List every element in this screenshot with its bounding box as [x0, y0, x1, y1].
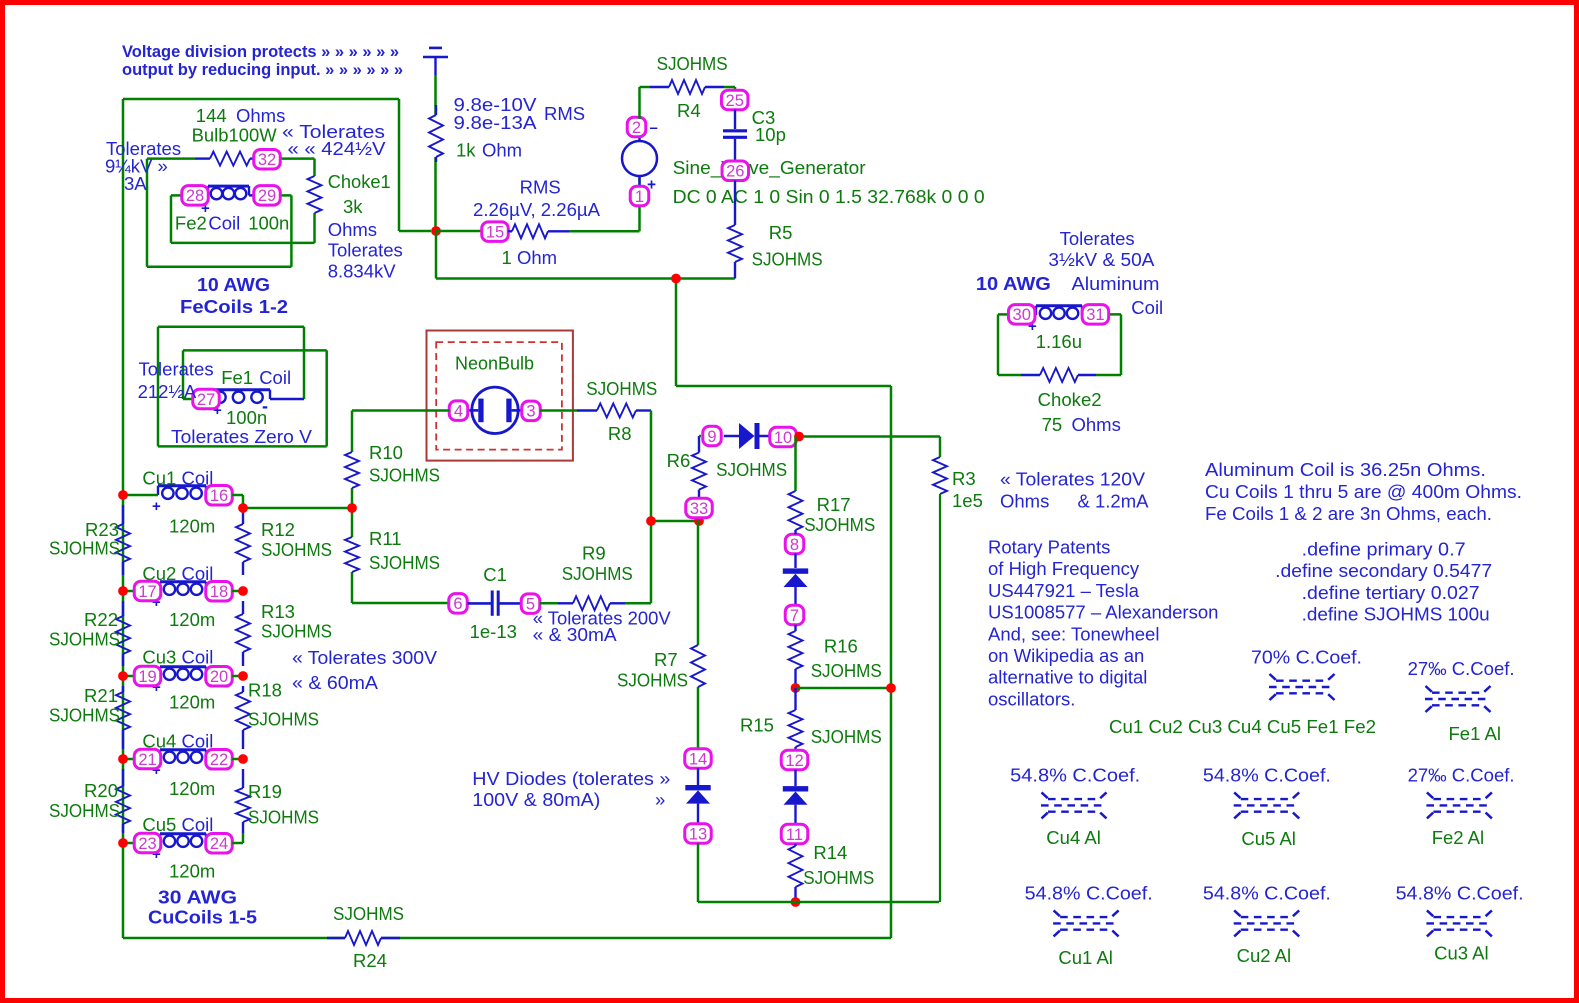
svg-text:Tolerates: Tolerates	[139, 359, 214, 380]
wire diode column bottom	[698, 843, 939, 902]
svg-text:Ohms: Ohms	[328, 219, 377, 240]
svg-text:R21: R21	[84, 685, 118, 706]
svg-text:21: 21	[138, 751, 156, 769]
svg-text:« Tolerates 120V: « Tolerates 120V	[1000, 469, 1146, 490]
resistor R8	[577, 378, 657, 444]
svg-text:Ohm: Ohm	[482, 140, 522, 161]
svg-text:output by reducing input. » »: output by reducing input. » » » » » »	[122, 60, 403, 79]
junction	[791, 897, 801, 907]
svg-text:70% C.Coef.: 70% C.Coef.	[1251, 647, 1362, 668]
svg-text:24: 24	[210, 835, 228, 853]
svg-text:14: 14	[689, 750, 707, 768]
svg-text:R11: R11	[369, 528, 402, 549]
node 15	[482, 222, 509, 242]
svg-text:3A: 3A	[124, 173, 147, 194]
wire ground to resistor	[434, 75, 437, 231]
svg-text:R8: R8	[608, 423, 632, 444]
comment text: tolerates 424 V	[282, 121, 386, 159]
svg-text:Cu5 Al: Cu5 Al	[1241, 828, 1296, 849]
wire junction down to source-loop bottom	[435, 231, 438, 279]
svg-text:30 AWG: 30 AWG	[158, 887, 237, 908]
svg-text:SJOHMS: SJOHMS	[261, 539, 332, 560]
svg-text:R10: R10	[369, 442, 403, 463]
svg-text:–: –	[650, 120, 658, 137]
resistor R15	[740, 688, 882, 750]
svg-text:CuCoils 1-5: CuCoils 1-5	[148, 907, 257, 928]
wire aluminum coil loop	[998, 314, 1121, 375]
svg-text:19: 19	[138, 668, 156, 686]
diode D1	[724, 423, 770, 449]
svg-text:1: 1	[635, 188, 644, 206]
svg-text:25: 25	[726, 92, 744, 110]
node 30	[1008, 305, 1034, 325]
wire source loop bottom	[436, 277, 735, 280]
svg-text:13: 13	[689, 825, 707, 843]
svg-text:SJOHMS: SJOHMS	[49, 705, 120, 726]
svg-text:9.8e-13A: 9.8e-13A	[454, 112, 538, 133]
voltage source Sine_Wave_Generator	[622, 120, 985, 208]
svg-text:R22: R22	[84, 609, 118, 630]
resistor R4	[650, 53, 728, 121]
node 33	[686, 498, 713, 518]
svg-text:R14: R14	[813, 842, 847, 863]
comment text: aluminum coil ratings	[976, 228, 1163, 318]
svg-text:30: 30	[1013, 306, 1031, 324]
node 24	[206, 834, 233, 854]
resistor R18	[236, 680, 319, 750]
wire outer loop top	[123, 99, 431, 231]
node 22	[206, 750, 233, 770]
comment text: define directives	[1275, 539, 1492, 625]
svg-text:SJOHMS: SJOHMS	[657, 53, 728, 74]
svg-text:1e5: 1e5	[952, 490, 983, 511]
comment text: tolerates 200V 30mA	[533, 608, 672, 646]
junction	[886, 683, 896, 693]
comment text: 10 AWG FeCoils	[180, 274, 288, 317]
resistor R21	[49, 685, 130, 749]
svg-text:R19: R19	[248, 781, 282, 802]
wire R17 column top	[794, 437, 797, 492]
svg-text:6: 6	[453, 595, 462, 613]
wire to node 15	[436, 230, 482, 233]
junction	[238, 503, 248, 764]
svg-text:US1008577 – Alexanderson: US1008577 – Alexanderson	[988, 602, 1218, 623]
coupling K1 Cu-Fe 70%	[1109, 647, 1376, 738]
svg-text:US447921 – Tesla: US447921 – Tesla	[988, 580, 1140, 601]
svg-text:100n: 100n	[226, 407, 267, 428]
resistor R20	[49, 769, 130, 833]
node 27	[193, 389, 220, 409]
resistor Choke2	[1021, 368, 1121, 435]
svg-text:NeonBulb: NeonBulb	[455, 353, 534, 374]
svg-text:120m: 120m	[169, 692, 215, 713]
svg-text:Cu Coils 1 thru 5 are @ 400m O: Cu Coils 1 thru 5 are @ 400m Ohms.	[1205, 481, 1522, 502]
resistor R16	[789, 625, 882, 688]
node 28	[182, 186, 209, 206]
svg-text:Tolerates: Tolerates	[1060, 228, 1135, 249]
comment text: 30 AWG CuCoils	[148, 887, 257, 928]
svg-text:Aluminum Coil is 36.25n Ohms.: Aluminum Coil is 36.25n Ohms.	[1205, 459, 1486, 480]
node 26	[722, 161, 749, 181]
inductor Cu5 Coil	[123, 814, 215, 881]
svg-text:& 1.2mA: & 1.2mA	[1078, 491, 1150, 512]
svg-text:SJOHMS: SJOHMS	[49, 629, 120, 650]
comment text: HV diodes	[472, 768, 670, 810]
svg-text:10: 10	[774, 429, 792, 447]
svg-text:2.26µV, 2.26µA: 2.26µV, 2.26µA	[473, 199, 601, 220]
comment text: tolerates 212 A	[138, 359, 214, 403]
wire cu rows right connections	[232, 591, 243, 843]
inductor Cu4 Coil	[123, 731, 215, 800]
inductor Fe2 Coil	[175, 186, 289, 233]
capacitor C3	[723, 107, 786, 161]
svg-text:54.8% C.Coef.: 54.8% C.Coef.	[1010, 765, 1140, 786]
resistor Bulb100W 144 Ohms	[192, 105, 286, 166]
wire R8 down	[651, 411, 699, 522]
coupling K3 Cu4-Al	[1010, 765, 1140, 849]
svg-text:R9: R9	[582, 543, 606, 564]
svg-text:Ohms: Ohms	[1000, 491, 1049, 512]
node 9	[703, 426, 722, 446]
svg-text:2: 2	[632, 119, 641, 137]
resistor R24	[327, 903, 404, 971]
wire mid horizontal to right rail	[676, 385, 891, 388]
svg-text:212½A: 212½A	[138, 381, 197, 402]
svg-text:R3: R3	[952, 468, 976, 489]
node 16	[206, 486, 233, 506]
svg-text:9: 9	[707, 428, 716, 446]
junction	[347, 503, 357, 513]
resistor R7	[617, 645, 705, 691]
inductor Fe1 Coil	[183, 367, 304, 428]
svg-text:R6: R6	[667, 450, 691, 471]
svg-text:Fe2 Al: Fe2 Al	[1432, 827, 1484, 848]
svg-text:Coil: Coil	[182, 731, 214, 752]
svg-text:« « 424½V: « « 424½V	[288, 138, 387, 159]
node 29	[254, 186, 281, 206]
neon bulb NE1	[427, 331, 573, 461]
svg-text:Choke1: Choke1	[328, 171, 391, 192]
svg-text:SJOHMS: SJOHMS	[803, 867, 874, 888]
coupling K8 Cu3-Al	[1396, 883, 1524, 964]
svg-text:R5: R5	[769, 222, 793, 243]
inductor Cu3 Coil	[123, 647, 215, 713]
node 7	[785, 605, 804, 625]
wire C3 to R5	[734, 181, 736, 226]
comment text: tolerates 9kV 3A	[105, 138, 181, 194]
svg-text:75: 75	[1042, 414, 1063, 435]
svg-text:144: 144	[196, 105, 227, 126]
wire left rail	[122, 99, 125, 938]
svg-text:R17: R17	[817, 494, 851, 515]
svg-text:« & 30mA: « & 30mA	[533, 624, 618, 645]
node 11	[781, 824, 808, 844]
svg-text:DC 0 AC 1 0 Sin 0 1.5 32.768k: DC 0 AC 1 0 Sin 0 1.5 32.768k 0 0 0	[673, 186, 985, 207]
resistor 1k Ohm (RMS monitor)	[429, 94, 585, 162]
svg-text:10p: 10p	[755, 124, 786, 145]
wire source top	[640, 87, 651, 119]
svg-text:100V & 80mA): 100V & 80mA)	[472, 789, 600, 810]
svg-text:Fe Coils 1 & 2 are 3n Ohms, ea: Fe Coils 1 & 2 are 3n Ohms, each.	[1205, 503, 1492, 524]
svg-text:SJOHMS: SJOHMS	[562, 563, 633, 584]
svg-text:16: 16	[210, 487, 228, 505]
resistor R6	[667, 436, 788, 499]
svg-text:1.16u: 1.16u	[1036, 331, 1082, 352]
svg-text:22: 22	[210, 751, 228, 769]
resistor R13	[236, 601, 332, 666]
svg-text:R16: R16	[824, 636, 858, 657]
svg-text:SJOHMS: SJOHMS	[617, 670, 688, 691]
svg-text:29: 29	[258, 187, 276, 205]
svg-text:SJOHMS: SJOHMS	[752, 249, 823, 270]
svg-text:Ohms: Ohms	[1072, 414, 1121, 435]
svg-text:Aluminum: Aluminum	[1072, 273, 1160, 294]
svg-text:100n: 100n	[248, 213, 289, 234]
svg-text:And, see: Tonewheel: And, see: Tonewheel	[988, 623, 1159, 644]
svg-text:Fe2: Fe2	[175, 213, 207, 234]
junction	[791, 683, 801, 693]
resistor R14	[789, 842, 875, 902]
diode D4	[685, 768, 710, 824]
svg-text:Coil: Coil	[182, 563, 214, 584]
svg-text:27‰ C.Coef.: 27‰ C.Coef.	[1408, 658, 1515, 679]
svg-text:R15: R15	[740, 715, 774, 736]
svg-text:»: »	[655, 789, 665, 810]
svg-text:7: 7	[790, 607, 799, 625]
svg-text:Rotary Patents: Rotary Patents	[988, 537, 1110, 558]
svg-text:Fe1: Fe1	[221, 367, 253, 388]
svg-text:Ohm: Ohm	[517, 247, 557, 268]
junction	[646, 516, 704, 526]
svg-text:R24: R24	[353, 950, 387, 971]
svg-text:SJOHMS: SJOHMS	[811, 726, 882, 747]
svg-text:12: 12	[785, 752, 803, 770]
svg-text:1k: 1k	[456, 140, 476, 161]
svg-text:R4: R4	[677, 100, 701, 121]
svg-text:27‰ C.Coef.: 27‰ C.Coef.	[1408, 765, 1515, 786]
node 8	[785, 534, 804, 554]
svg-text:31: 31	[1086, 306, 1104, 324]
svg-text:33: 33	[690, 500, 708, 518]
diode D2	[783, 530, 808, 605]
resistor Choke1	[308, 171, 403, 282]
svg-text:alternative to digital: alternative to digital	[988, 667, 1147, 688]
ground	[423, 48, 448, 75]
svg-text:R20: R20	[84, 780, 118, 801]
svg-text:R18: R18	[248, 680, 282, 701]
svg-text:32: 32	[258, 151, 276, 169]
diode D3	[783, 770, 808, 825]
svg-text:Coil: Coil	[259, 367, 291, 388]
svg-text:« Tolerates 300V: « Tolerates 300V	[292, 647, 438, 668]
wire R7 column	[698, 521, 699, 749]
svg-text:Cu3: Cu3	[142, 647, 176, 668]
svg-text:10 AWG: 10 AWG	[976, 273, 1051, 294]
comment text: tolerates 120V	[1000, 469, 1149, 512]
wire neon bulb row	[352, 409, 577, 412]
resistor R3	[933, 437, 983, 903]
node 21	[134, 749, 161, 769]
svg-text:Cu1 Cu2 Cu3 Cu4 Cu5 Fe1 Fe2: Cu1 Cu2 Cu3 Cu4 Cu5 Fe1 Fe2	[1109, 716, 1376, 737]
wire Fe2 block loop	[147, 159, 315, 267]
svg-text:.define primary 0.7: .define primary 0.7	[1302, 539, 1466, 560]
svg-text:SJOHMS: SJOHMS	[369, 552, 440, 573]
resistor R12	[236, 508, 332, 575]
svg-text:on Wikipedia as an: on Wikipedia as an	[988, 645, 1144, 666]
svg-text:SJOHMS: SJOHMS	[248, 807, 319, 828]
node 6	[449, 594, 468, 614]
svg-text:Cu3 Al: Cu3 Al	[1434, 943, 1489, 964]
coupling K4 Cu5-Al	[1203, 765, 1331, 850]
svg-text:R13: R13	[261, 601, 295, 622]
svg-text:Voltage division protects » »: Voltage division protects » » » » » »	[122, 42, 399, 61]
wire bottom rail	[123, 937, 891, 940]
svg-text:Tolerates: Tolerates	[328, 240, 403, 261]
node 20	[206, 667, 233, 687]
svg-text:54.8% C.Coef.: 54.8% C.Coef.	[1396, 883, 1524, 904]
resistor R22	[49, 601, 130, 666]
svg-text:HV Diodes (tolerates »: HV Diodes (tolerates »	[472, 768, 670, 789]
svg-text:SJOHMS: SJOHMS	[811, 660, 882, 681]
svg-text:120m: 120m	[169, 516, 215, 537]
wire to source	[569, 176, 640, 231]
wire R9 to R8 riser	[540, 521, 651, 603]
svg-text:Coil: Coil	[182, 647, 214, 668]
svg-text:28: 28	[186, 187, 204, 205]
svg-text:15: 15	[486, 223, 504, 241]
node 19	[134, 666, 161, 686]
svg-text:3½kV & 50A: 3½kV & 50A	[1048, 249, 1155, 270]
svg-text:120m: 120m	[169, 861, 215, 882]
svg-text:3k: 3k	[343, 196, 363, 217]
svg-text:26: 26	[726, 163, 744, 181]
wire R10 column	[352, 411, 449, 604]
svg-text:of High Frequency: of High Frequency	[988, 558, 1140, 579]
junction	[431, 226, 441, 236]
svg-text:Tolerates Zero V: Tolerates Zero V	[171, 426, 313, 447]
svg-text:.define secondary 0.5477: .define secondary 0.5477	[1275, 560, 1492, 581]
node 25	[721, 90, 748, 110]
node 31	[1082, 305, 1109, 325]
resistor R23	[49, 505, 130, 575]
svg-text:SJOHMS: SJOHMS	[716, 459, 787, 480]
resistor R5	[728, 222, 823, 279]
svg-text:11: 11	[786, 826, 803, 844]
svg-text:8: 8	[790, 536, 799, 554]
node 10	[770, 427, 797, 447]
resistor R9	[558, 543, 633, 611]
coupling K6 Cu1-Al	[1025, 883, 1153, 969]
node 12	[781, 750, 808, 770]
svg-text:oscillators.: oscillators.	[988, 688, 1075, 709]
svg-text:Choke2: Choke2	[1038, 389, 1102, 410]
coupling K5 Fe2-Al	[1408, 765, 1515, 849]
resistor R17	[789, 491, 876, 535]
capacitor C1	[468, 564, 522, 642]
svg-text:SJOHMS: SJOHMS	[49, 538, 120, 559]
svg-text:SJOHMS: SJOHMS	[369, 465, 440, 486]
svg-text:« & 60mA: « & 60mA	[292, 672, 379, 693]
svg-text:Ohms: Ohms	[236, 105, 285, 126]
svg-text:RMS: RMS	[544, 103, 585, 124]
svg-text:27: 27	[197, 391, 215, 409]
svg-text:Coil: Coil	[182, 814, 214, 835]
svg-text:Cu1 Al: Cu1 Al	[1058, 947, 1113, 968]
node 17	[134, 581, 161, 601]
wire Fe1 block loop	[158, 327, 327, 447]
svg-text:C1: C1	[483, 564, 507, 585]
wire R6 top corner	[699, 435, 701, 438]
coupling K7 Cu2-Al	[1203, 883, 1331, 967]
resistor R11	[345, 528, 440, 573]
svg-text:3: 3	[526, 403, 535, 421]
svg-text:Cu4 Al: Cu4 Al	[1046, 827, 1101, 848]
svg-text:54.8% C.Coef.: 54.8% C.Coef.	[1203, 883, 1331, 904]
node 1	[630, 186, 649, 206]
wire R16 bottom to right rail	[796, 687, 892, 690]
svg-text:120m: 120m	[169, 778, 215, 799]
svg-text:1: 1	[502, 247, 512, 268]
comment text: coil resistances	[1205, 459, 1522, 524]
svg-text:17: 17	[138, 583, 156, 601]
svg-text:SJOHMS: SJOHMS	[804, 514, 875, 535]
svg-text:1e-13: 1e-13	[470, 621, 517, 642]
node 5	[521, 594, 540, 614]
svg-text:8.834kV: 8.834kV	[328, 261, 397, 282]
node 4	[449, 401, 468, 421]
svg-text:18: 18	[210, 583, 228, 601]
node 13	[685, 824, 712, 844]
svg-text:FeCoils 1-2: FeCoils 1-2	[180, 296, 288, 317]
svg-text:Coil: Coil	[208, 213, 240, 234]
junction	[671, 274, 681, 284]
resistor R19	[236, 769, 319, 833]
svg-text:10 AWG: 10 AWG	[197, 274, 270, 295]
wire R4 to C3 corner	[724, 87, 735, 91]
svg-text:R12: R12	[261, 519, 295, 540]
inductor Cu1 Coil	[123, 468, 215, 537]
svg-text:120m: 120m	[169, 609, 215, 630]
comment text: tolerates zero V	[171, 426, 313, 447]
svg-text:.define tertiary 0.027: .define tertiary 0.027	[1302, 582, 1480, 603]
inductor Aluminum Coil	[1028, 306, 1082, 352]
node 14	[685, 749, 712, 769]
svg-text:SJOHMS: SJOHMS	[333, 903, 404, 924]
svg-text:SJOHMS: SJOHMS	[261, 621, 332, 642]
svg-text:R7: R7	[654, 649, 678, 670]
svg-text:SJOHMS: SJOHMS	[49, 800, 120, 821]
junction	[118, 490, 128, 848]
svg-text:Cu2 Al: Cu2 Al	[1237, 945, 1292, 966]
svg-text:4: 4	[454, 402, 463, 420]
svg-text:Coil: Coil	[1131, 297, 1163, 318]
inductor Cu2 Coil	[123, 563, 215, 630]
svg-text:Cu1: Cu1	[142, 468, 176, 489]
node 23	[134, 833, 161, 853]
wire node16 to R12	[232, 495, 352, 508]
resistor 1 Ohm (RMS)	[473, 177, 601, 269]
svg-text:Bulb100W: Bulb100W	[192, 125, 278, 146]
node 18	[206, 582, 233, 602]
svg-text:SJOHMS: SJOHMS	[586, 378, 657, 399]
junction	[794, 432, 804, 442]
wire from source loop down	[675, 279, 678, 387]
svg-text:54.8% C.Coef.: 54.8% C.Coef.	[1025, 883, 1153, 904]
svg-text:+: +	[152, 498, 161, 515]
comment text: tolerates 300V 60mA	[292, 647, 438, 693]
svg-text:RMS: RMS	[520, 177, 561, 198]
svg-text:20: 20	[210, 668, 228, 686]
